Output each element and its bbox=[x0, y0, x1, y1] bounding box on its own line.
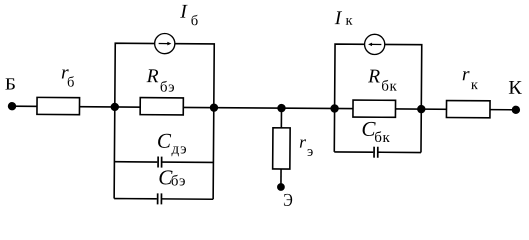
wire Cдэ row left segment bbox=[114, 161, 157, 163]
node К terminal dot bbox=[512, 106, 520, 114]
svg-text:бк: бк bbox=[381, 79, 397, 95]
node 3 junction dot rэ top bbox=[277, 104, 285, 112]
wire left group top rail bbox=[114, 43, 214, 199]
resistor r_б bbox=[37, 97, 80, 114]
svg-text:б: б bbox=[191, 13, 199, 29]
wire Cдэ row right segment bbox=[162, 161, 213, 163]
current source I_к circle bbox=[364, 34, 384, 54]
node Б terminal dot bbox=[8, 102, 16, 110]
svg-text:R: R bbox=[146, 66, 159, 87]
svg-text:I: I bbox=[179, 2, 188, 23]
current source I_к arrow bbox=[371, 43, 381, 45]
current source I_б arrow bbox=[159, 43, 168, 45]
node 5 junction dot bbox=[417, 105, 425, 113]
resistor R_бк bbox=[353, 100, 396, 117]
svg-text:бк: бк bbox=[374, 130, 390, 146]
node 2 junction dot bbox=[210, 103, 218, 111]
svg-text:Э: Э bbox=[283, 190, 293, 210]
capacitor C_бк plates bbox=[374, 147, 378, 158]
svg-text:к: к bbox=[345, 13, 353, 29]
resistor r_э vertical bbox=[273, 128, 290, 169]
wire main horizontal Б-to-К bbox=[12, 106, 516, 110]
node 1 junction dot bbox=[111, 103, 119, 111]
wire Cбк row right segment bbox=[378, 151, 421, 153]
svg-text:к: к bbox=[471, 77, 479, 93]
svg-text:r: r bbox=[299, 132, 306, 152]
wire Cбэ row right segment bbox=[162, 198, 213, 200]
node 4 junction dot bbox=[330, 104, 338, 112]
wire Cбк row left segment bbox=[334, 151, 373, 153]
wire right group top rail bbox=[334, 44, 421, 152]
svg-text:r: r bbox=[462, 64, 470, 85]
svg-text:бэ: бэ bbox=[160, 79, 175, 95]
resistor R_бэ bbox=[140, 98, 183, 115]
wire rэ vertical branch bbox=[280, 108, 283, 187]
svg-text:R: R bbox=[367, 66, 380, 87]
resistor r_к bbox=[446, 101, 490, 118]
svg-text:К: К bbox=[508, 78, 523, 99]
svg-text:бэ: бэ bbox=[171, 173, 186, 189]
wire Cбэ row left segment bbox=[114, 198, 157, 200]
svg-text:C: C bbox=[157, 129, 172, 153]
capacitor C_бэ plates bbox=[158, 193, 162, 204]
capacitor C_дэ plates bbox=[158, 157, 162, 168]
current source I_б circle bbox=[155, 33, 175, 53]
node Э terminal dot bbox=[277, 183, 285, 191]
svg-text:I: I bbox=[334, 8, 343, 29]
svg-text:дэ: дэ bbox=[171, 141, 187, 157]
svg-text:б: б bbox=[67, 74, 75, 90]
svg-text:Б: Б bbox=[5, 74, 16, 93]
svg-text:э: э bbox=[307, 144, 313, 160]
